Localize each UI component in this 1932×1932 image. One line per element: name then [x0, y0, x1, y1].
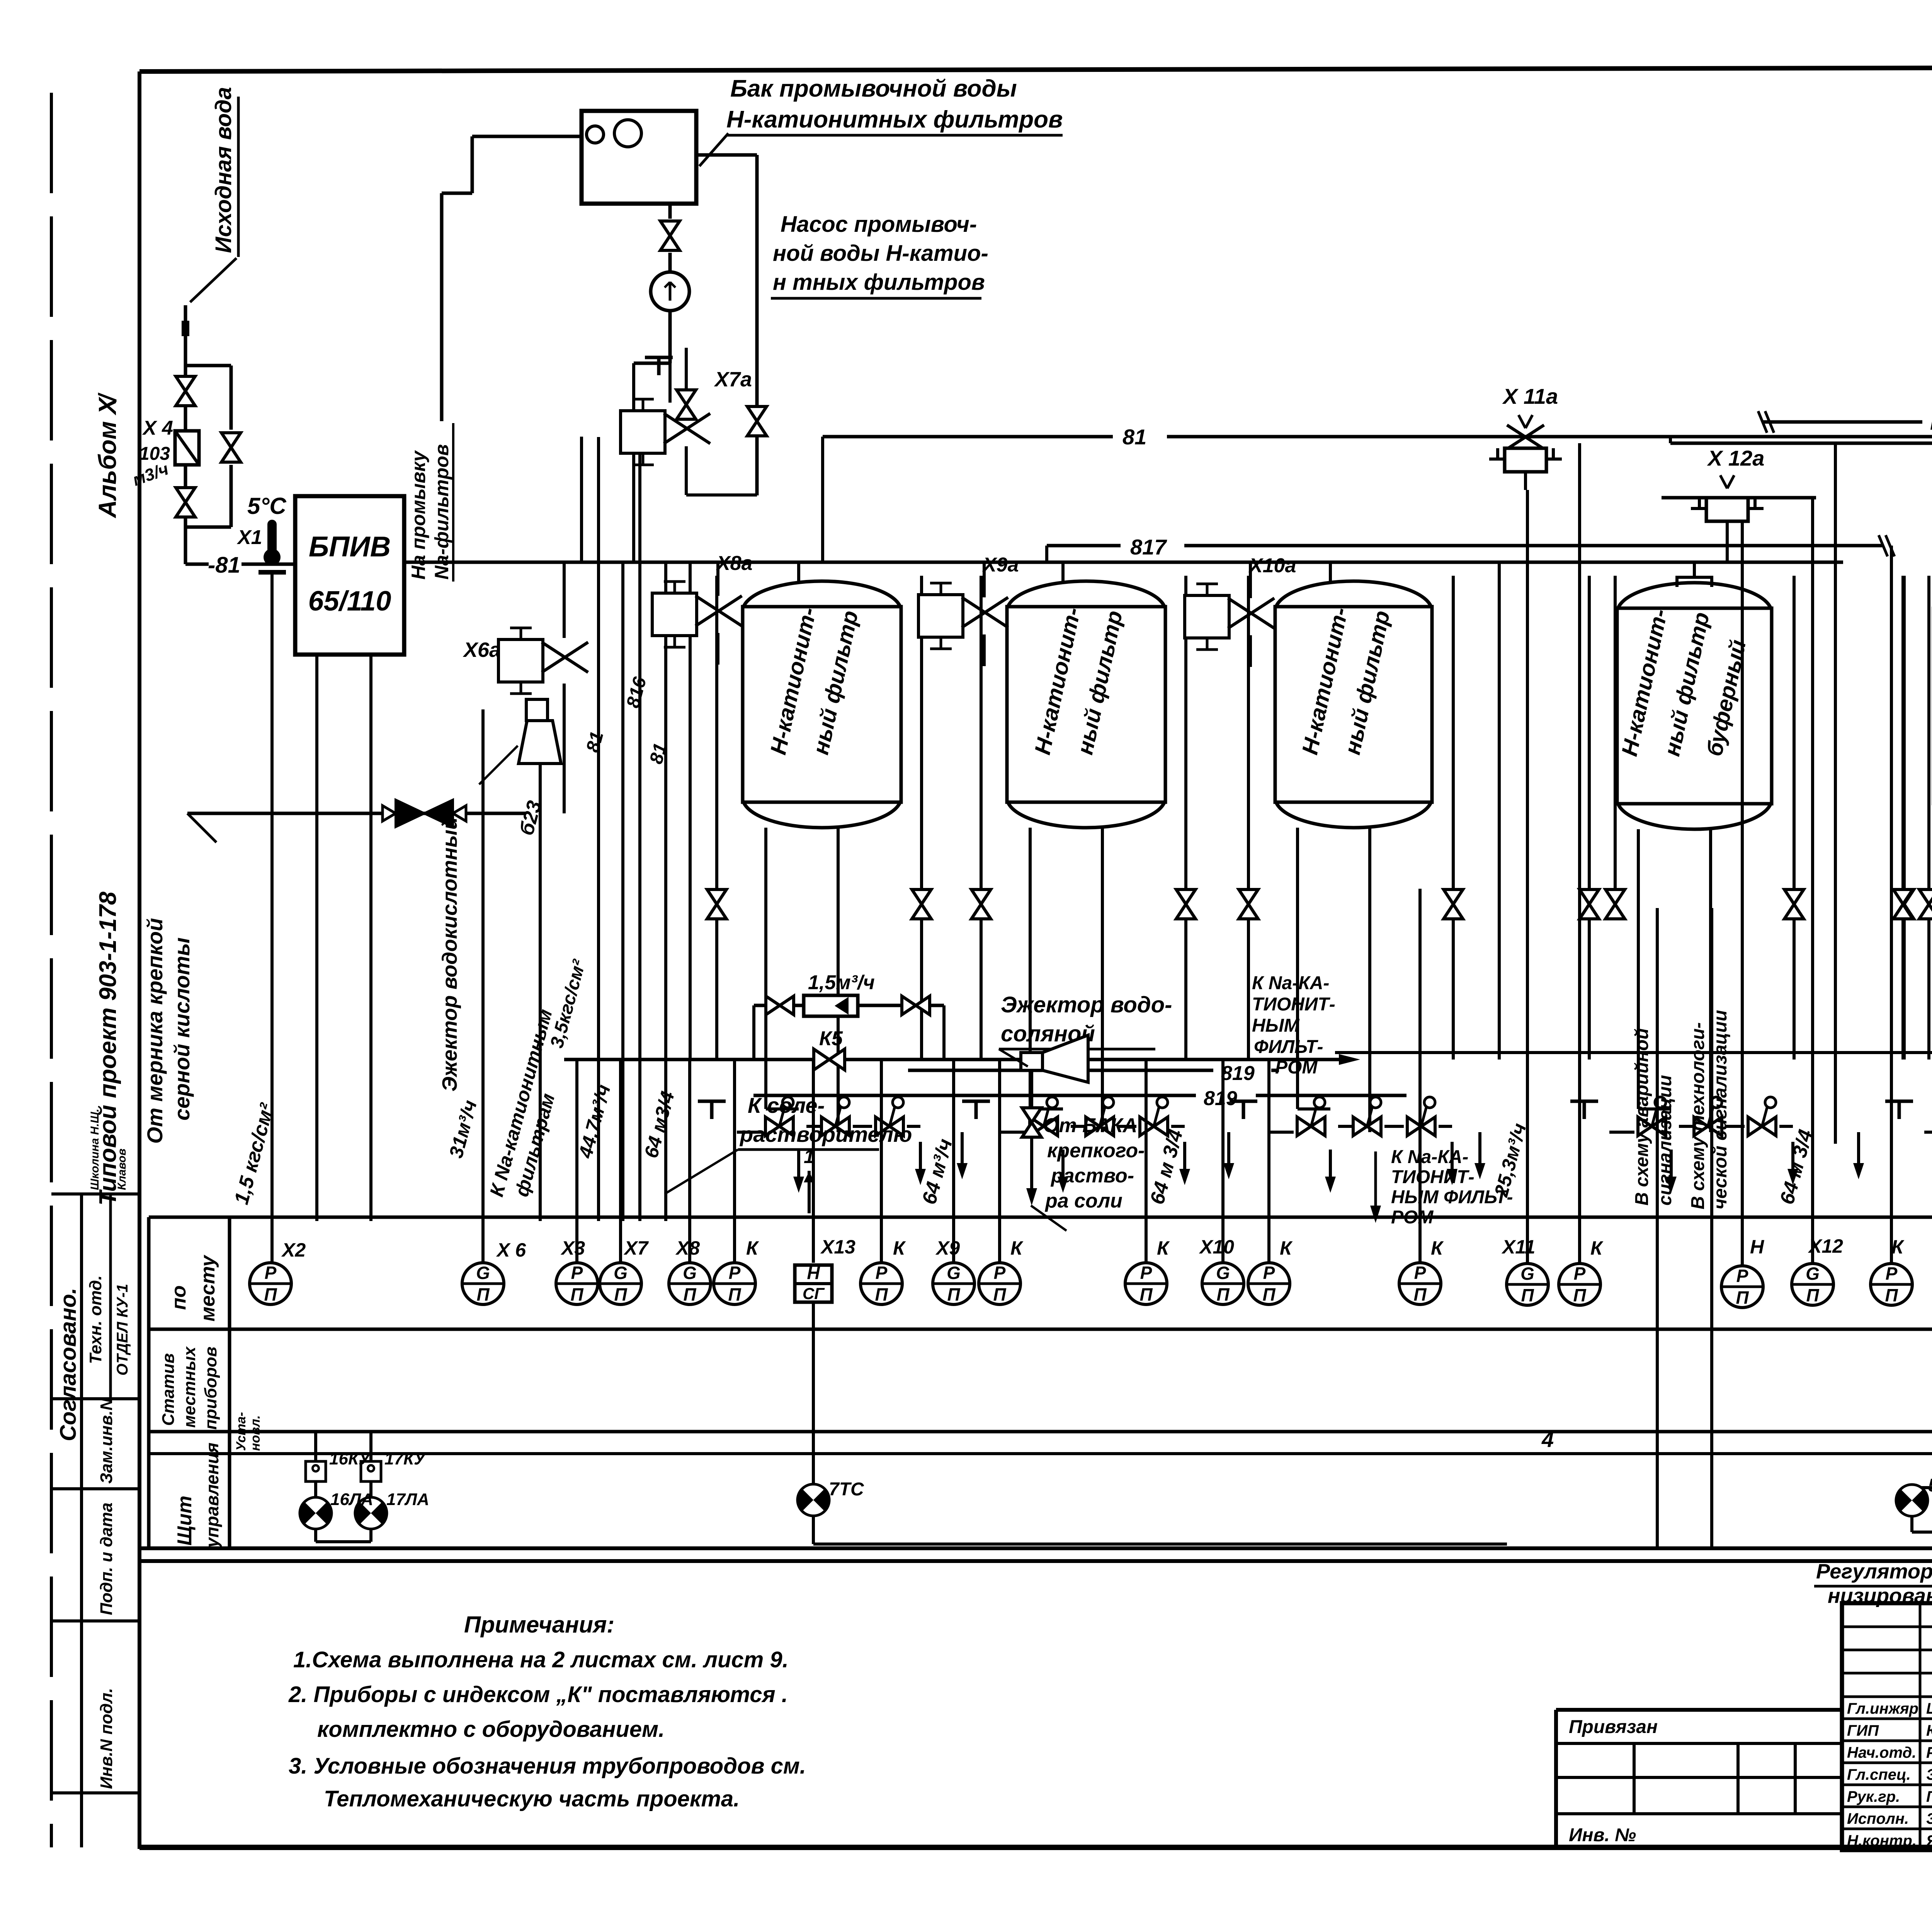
H-cation filter 3 bottom piping and valves: [1230, 828, 1458, 1193]
pipe from tank top left: [442, 136, 582, 421]
svg-text:НЫМ: НЫМ: [1252, 1015, 1300, 1036]
svg-text:Регулятор уровня в баке: Регулятор уровня в баке декарбо-: [1816, 1560, 1932, 1583]
svg-text:X9: X9: [935, 1237, 960, 1259]
svg-text:Примечания:: Примечания:: [464, 1612, 614, 1638]
svg-text:Нач.отд.: Нач.отд.: [1847, 1744, 1916, 1761]
main B18 header: [1670, 410, 1932, 454]
svg-text:П: П: [264, 1284, 277, 1304]
H-cation filter 2 vessel: [1007, 581, 1165, 828]
svg-text:новл.: новл.: [248, 1415, 263, 1451]
svg-text:Р: Р: [1574, 1264, 1586, 1284]
header line under buffer tanks: [1507, 1051, 1932, 1054]
svg-text:приборов: приборов: [201, 1347, 220, 1430]
svg-text:X3: X3: [560, 1237, 585, 1259]
svg-text:В схему аварийной: В схему аварийной: [1632, 1028, 1652, 1206]
H-cation buffer filter 4 side valves: [1580, 576, 1804, 1060]
svg-text:ческой сигнализации: ческой сигнализации: [1710, 1010, 1731, 1209]
svg-text:Р: Р: [571, 1263, 583, 1283]
svg-text:П: П: [875, 1284, 888, 1304]
block BPIV 65/110: [295, 496, 404, 655]
svg-text:X8а: X8а: [716, 552, 753, 575]
svg-text:по: по: [168, 1285, 190, 1310]
svg-text:местных: местных: [180, 1346, 199, 1428]
signal line to alarm circuit: [1632, 908, 1675, 1548]
drain stubs with arrows under manifold: [957, 1132, 1932, 1179]
svg-text:н тных фильтров: н тных фильтров: [773, 270, 985, 295]
buffer tank 4 extra valves: [1580, 576, 1932, 1060]
left sidebar column lines: [51, 93, 139, 1847]
svg-text:сигнализации: сигнализации: [1655, 1075, 1675, 1206]
svg-text:X11: X11: [1501, 1236, 1535, 1258]
svg-text:ФИЛЬТ-: ФИЛЬТ-: [1254, 1037, 1323, 1057]
svg-text:16ЛА: 16ЛА: [330, 1490, 373, 1509]
svg-text:комплектно с оборудованием.: комплектно с оборудованием.: [317, 1717, 665, 1742]
svg-text:П: П: [1262, 1284, 1276, 1304]
H-cation filter 3 vessel: [1275, 581, 1432, 828]
svg-text:Школина Н.Ш.: Школина Н.Ш.: [88, 1109, 101, 1190]
svg-text:G: G: [614, 1263, 628, 1283]
svg-text:ра соли: ра соли: [1044, 1190, 1122, 1212]
riser pipes B1 B16 group: [230, 437, 690, 1221]
svg-text:Ястребова: Ястребова: [1926, 1832, 1932, 1849]
instrument X3 P/P: [556, 1263, 598, 1304]
H-cation buffer filter 5 bottom piping and valves: [1885, 829, 1932, 1193]
valve X7a assembly: [621, 348, 767, 495]
svg-text:X 4: X 4: [142, 417, 173, 439]
riser from X12a to instrument X12: [1811, 498, 1814, 1263]
svg-text:ТИОНИТ-: ТИОНИТ-: [1252, 994, 1335, 1015]
pipe B1 to BPIV: [241, 563, 295, 566]
main B17 header: [1047, 535, 1895, 562]
wash water pump (Nasos promyvochnoy vody): [651, 212, 988, 311]
drain header B19 upper: [908, 1062, 1279, 1085]
svg-text:Уста-: Уста-: [234, 1412, 248, 1451]
valve on X4 branch lower: [176, 488, 195, 517]
tank top fittings circles: [587, 126, 604, 143]
svg-text:На промывку: На промывку: [408, 450, 429, 580]
svg-text:Н-катионитных фильтров: Н-катионитных фильтров: [726, 106, 1063, 133]
svg-text:Исполн.: Исполн.: [1847, 1810, 1909, 1827]
svg-text:В схему технологи-: В схему технологи-: [1688, 1022, 1708, 1209]
riser to Na-filters wash: [408, 423, 582, 582]
svg-text:Гл.спец.: Гл.спец.: [1847, 1766, 1911, 1783]
svg-text:X 12а: X 12а: [1707, 446, 1764, 470]
svg-text:Шкллер: Шкллер: [1926, 1700, 1932, 1717]
bypass valve right branch: [221, 433, 241, 462]
svg-text:П: П: [1139, 1284, 1153, 1304]
svg-text:Техн. отд.: Техн. отд.: [86, 1276, 105, 1364]
svg-text:3. Условные обозначения тру: 3. Условные обозначения трубопроводов см…: [289, 1753, 806, 1779]
svg-text:Статив: Статив: [159, 1353, 178, 1426]
svg-text:Бак промывочной воды: Бак промывочной воды: [730, 75, 1017, 102]
svg-text:П: П: [1216, 1284, 1230, 1304]
svg-text:17КУ: 17КУ: [384, 1449, 427, 1468]
svg-text:Альбом X̸: Альбом X̸: [94, 392, 121, 519]
misc risers middle right: [1499, 443, 1932, 1144]
instrument K P/P near X8: [714, 1263, 755, 1304]
svg-text:X1: X1: [236, 526, 262, 549]
control valve X6a: [463, 562, 588, 813]
svg-text:X 6: X 6: [496, 1239, 526, 1261]
svg-text:5ТС: 5ТС: [1928, 1475, 1932, 1496]
instrument K P/P tank3 left: [1125, 1263, 1167, 1304]
svg-text:ной воды Н-катио-: ной воды Н-катио-: [773, 241, 988, 266]
valve under wash tank: [660, 204, 680, 273]
svg-text:К: К: [1010, 1237, 1024, 1259]
panel lamps 5TC 6TC: [1896, 1475, 1932, 1532]
instrument K P/P near X11: [1559, 1264, 1600, 1305]
H-cation filter 1 side valves: [707, 576, 931, 1060]
acid feed line from strong acid measuring tank: [143, 800, 526, 1144]
svg-text:Зам.инв.N: Зам.инв.N: [97, 1398, 116, 1484]
svg-text:X2: X2: [281, 1239, 306, 1261]
label K Na-kationitnym filtram (to Na filters): [1370, 1147, 1513, 1228]
H-cation filter 2 side valves: [971, 576, 1196, 1060]
H-cation filter 1 bottom piping and valves: [698, 828, 926, 1193]
H-cation filter 2 bottom piping and valves: [962, 828, 1190, 1193]
svg-text:П: П: [947, 1284, 960, 1304]
H-cation buffer filter 5 vessel: [1932, 577, 1932, 829]
svg-text:Рук.гр.: Рук.гр.: [1847, 1788, 1900, 1805]
svg-text:G: G: [1216, 1263, 1230, 1283]
svg-text:65/110: 65/110: [308, 586, 391, 617]
instrument X9 G/P: [933, 1263, 975, 1304]
tank top connection stubs: [799, 562, 1932, 583]
svg-text:П: П: [476, 1284, 490, 1304]
svg-text:К: К: [1891, 1236, 1905, 1258]
svg-text:К5: К5: [819, 1027, 843, 1050]
svg-text:К: К: [893, 1237, 906, 1259]
svg-text:крепкого-: крепкого-: [1047, 1139, 1145, 1162]
control valve X11a on B1: [1489, 384, 1562, 1263]
svg-text:П: П: [1521, 1285, 1534, 1305]
svg-text:1,5м³/ч: 1,5м³/ч: [808, 971, 875, 994]
acid shutoff valve (filled): [396, 800, 453, 827]
svg-text:Тепломеханическую часть прое: Тепломеханическую часть проекта.: [324, 1786, 740, 1811]
svg-text:Гл.инжяр: Гл.инжяр: [1847, 1700, 1918, 1717]
svg-text:Р: Р: [1886, 1264, 1898, 1284]
svg-text:Р: Р: [1263, 1263, 1275, 1283]
svg-text:G: G: [947, 1263, 961, 1283]
svg-text:П: П: [728, 1284, 741, 1304]
svg-text:7ТС: 7ТС: [829, 1479, 864, 1500]
svg-text:17ЛА: 17ЛА: [386, 1490, 429, 1509]
svg-text:X8: X8: [675, 1237, 700, 1259]
svg-text:ОТДЕЛ КУ-1: ОТДЕЛ КУ-1: [114, 1284, 131, 1376]
svg-text:Ранерштейн: Ранерштейн: [1926, 1744, 1932, 1761]
svg-text:П: П: [1573, 1285, 1586, 1305]
svg-text:К: К: [1280, 1237, 1293, 1259]
svg-text:ГИП: ГИП: [1847, 1722, 1879, 1739]
svg-text:Горностаев: Горностаев: [1926, 1788, 1932, 1805]
svg-text:X7а: X7а: [714, 368, 752, 391]
svg-text:Клавов: Клавов: [116, 1148, 128, 1190]
svg-text:П: П: [614, 1284, 627, 1304]
svg-text:X 11а: X 11а: [1502, 384, 1558, 408]
title block attachment table: [1556, 1742, 1842, 1745]
svg-text:X9а: X9а: [982, 554, 1019, 576]
svg-text:месту: месту: [197, 1254, 219, 1321]
svg-text:П: П: [1806, 1285, 1819, 1305]
svg-text:1.Схема выполнена на 2 лист: 1.Схема выполнена на 2 листах см. лист 9…: [293, 1647, 789, 1672]
svg-text:819: 819: [1221, 1062, 1255, 1085]
svg-text:16КУ: 16КУ: [329, 1449, 371, 1468]
svg-text:G: G: [476, 1263, 490, 1283]
instrument X12 G/P: [1792, 1264, 1833, 1305]
H-cation buffer filter 4 bottom piping and valves: [1570, 829, 1798, 1193]
svg-text:81: 81: [1122, 425, 1146, 449]
regulator level label with leader: [1814, 1538, 1932, 1607]
svg-text:Привязан: Привязан: [1569, 1717, 1658, 1737]
panel lamp 7TC: [798, 1302, 1507, 1544]
svg-text:819: 819: [1204, 1087, 1237, 1110]
instrument K P/P tank4 left: [1399, 1263, 1441, 1304]
instrument H P/P: [1721, 1266, 1763, 1308]
pipe pump down and tee: [634, 311, 673, 562]
H-cation buffer filter 4 vessel: [1617, 577, 1772, 829]
svg-text:П: П: [570, 1284, 583, 1304]
svg-text:Н: Н: [807, 1263, 820, 1283]
svg-text:X13: X13: [820, 1236, 855, 1258]
svg-text:X10а: X10а: [1248, 554, 1296, 577]
H-cation filter 3 inlet control valve X10а: [1185, 554, 1296, 667]
valve on main under K5: [814, 1049, 845, 1070]
instrument band grid: [139, 1217, 1932, 1561]
svg-text:Р: Р: [876, 1263, 888, 1283]
svg-text:БПИВ: БПИВ: [309, 531, 391, 563]
svg-text:Юртаев: Юртаев: [1926, 1722, 1932, 1739]
svg-text:Инв.N подл.: Инв.N подл.: [97, 1688, 116, 1789]
drain header B19 lower: [753, 1087, 1406, 1110]
riser to instrument H: [1741, 521, 1744, 1265]
svg-text:ТИОНИТ-: ТИОНИТ-: [1391, 1167, 1475, 1187]
control valve X12a: [1662, 446, 1816, 1263]
svg-text:Na-фильтров: Na-фильтров: [431, 444, 452, 580]
label K Na-kationitnym filtram upper: [1252, 973, 1507, 1078]
svg-text:СГ: СГ: [803, 1284, 825, 1303]
instrument K P/P right of X13: [861, 1263, 902, 1304]
instrument X7 G/P: [600, 1263, 641, 1304]
svg-text:Согласовано.: Согласовано.: [56, 1288, 81, 1441]
svg-text:раство-: раство-: [1050, 1165, 1134, 1187]
water-salt ejector (Ezhektor vodo-solyanoy): [999, 992, 1507, 1107]
flow orifice K5 bypass loop: [754, 971, 944, 1070]
svg-text:X7: X7: [623, 1237, 649, 1259]
H-cation filter 2 inlet control valve X9а: [918, 554, 1019, 666]
svg-text:Р: Р: [994, 1263, 1006, 1283]
svg-text:Этинген: Этинген: [1926, 1766, 1932, 1783]
H-cation filter 3 side valves: [1239, 576, 1463, 1060]
svg-text:Щит: Щит: [173, 1496, 196, 1546]
svg-text:управления: управления: [202, 1442, 222, 1548]
svg-text:От БАКА: От БАКА: [1043, 1114, 1137, 1137]
svg-text:Закомаркова: Закомаркова: [1926, 1810, 1932, 1827]
svg-text:Инв. №: Инв. №: [1569, 1825, 1636, 1845]
svg-text:4: 4: [1541, 1427, 1554, 1452]
svg-text:К Na-КА-: К Na-КА-: [1391, 1147, 1468, 1167]
panel devices 16KU 17KU with lamps: [300, 1431, 429, 1542]
ejector vodokislotny (acid-water ejector): [438, 699, 561, 1221]
instrument X11 G/P: [1507, 1264, 1548, 1305]
H-cation buffer filter 5 side valves: [1895, 576, 1932, 1060]
svg-text:П: П: [993, 1284, 1006, 1304]
svg-text:К Na-КА-: К Na-КА-: [1252, 973, 1329, 993]
valve from strong salt tank: [1022, 1108, 1145, 1231]
pipes down from BPIV: [315, 655, 318, 1221]
svg-text:Насос промывоч-: Насос промывоч-: [781, 212, 977, 237]
svg-text:Р: Р: [265, 1263, 277, 1283]
instrument X2 P/P: [250, 1263, 291, 1304]
svg-text:X10: X10: [1199, 1236, 1234, 1258]
svg-text:растворителю: растворителю: [739, 1122, 912, 1146]
svg-text:П: П: [1885, 1285, 1898, 1305]
svg-text:К: К: [1590, 1237, 1604, 1259]
svg-text:-81: -81: [208, 553, 240, 578]
svg-text:К: К: [1431, 1237, 1444, 1259]
instrument K P/P near X10: [1248, 1263, 1290, 1304]
svg-text:G: G: [1520, 1264, 1534, 1284]
svg-text:Р: Р: [1140, 1263, 1152, 1283]
valve loop X4 (water meter): [130, 366, 241, 564]
riser from X11a to instrument X11: [1526, 490, 1529, 1263]
svg-text:G: G: [1806, 1264, 1820, 1284]
main B1 header: [823, 425, 1932, 562]
svg-text:серной кислоты: серной кислоты: [170, 937, 194, 1121]
valve right of K5: [902, 996, 930, 1015]
svg-text:От мерника крепкой: От мерника крепкой: [143, 918, 167, 1144]
svg-text:В 18: В 18: [1930, 410, 1932, 434]
svg-text:НЫМ ФИЛЬТ-: НЫМ ФИЛЬТ-: [1391, 1187, 1513, 1207]
svg-text:Эжектор водо-: Эжектор водо-: [1001, 992, 1172, 1017]
title block outer: [1556, 1603, 1932, 1850]
signal line to technological alarm circuit: [1688, 908, 1731, 1548]
svg-text:G: G: [683, 1263, 697, 1283]
instrument X6 G/P: [462, 1263, 504, 1304]
pipe B1 from BPIV to tanks manifold: [404, 561, 1843, 564]
instrument X8 G/P: [669, 1263, 711, 1304]
svg-text:К: К: [1157, 1237, 1170, 1259]
instrument X13 N/SG square: [795, 1265, 832, 1302]
orifice K5: [804, 995, 858, 1016]
svg-text:П: П: [683, 1284, 696, 1304]
wash water tank (Bak promyvochnoy vody): [582, 75, 1063, 204]
instrument K P/P near X9: [979, 1263, 1020, 1304]
svg-text:X6а: X6а: [463, 638, 501, 662]
H-cation filter 1 vessel: [743, 581, 901, 828]
svg-text:П: П: [1736, 1287, 1749, 1308]
svg-text:Н: Н: [1750, 1236, 1764, 1258]
pipe end markers B17: [1879, 535, 1888, 556]
svg-text:П: П: [1413, 1284, 1427, 1304]
raw water inlet node: [182, 87, 238, 366]
svg-text:К: К: [746, 1237, 759, 1259]
label K sole-rastvoritelyu (to salt dissolver): [665, 1093, 912, 1213]
svg-text:Н.контр.: Н.контр.: [1847, 1832, 1917, 1849]
svg-text:Подп. и дата: Подп. и дата: [97, 1503, 116, 1615]
header 64m3 line above instruments: [564, 1058, 1339, 1061]
svg-text:Исходная вода: Исходная вода: [211, 87, 236, 253]
svg-text:2. Приборы с индексом „К": 2. Приборы с индексом „К" поставляются .: [288, 1682, 788, 1707]
thermometer X1 with 5 C label: [236, 493, 287, 1263]
svg-text:Р: Р: [729, 1263, 741, 1283]
H-cation filter 1 inlet control valve X8а: [652, 552, 753, 665]
svg-text:X12: X12: [1808, 1235, 1843, 1257]
svg-text:5°C: 5°C: [247, 493, 287, 519]
instrument X10 G/P: [1202, 1263, 1244, 1304]
water meter X4 box: [175, 431, 199, 465]
instrument stems rising from row 1: [483, 443, 1932, 1272]
pipe from tank right side down: [696, 155, 757, 495]
svg-text:103: 103: [139, 444, 170, 464]
bypass valve right of pump: [747, 406, 767, 436]
valve on X4 branch upper: [176, 376, 195, 406]
svg-text:817: 817: [1130, 535, 1167, 559]
svg-text:Эжектор водокислотный: Эжектор водокислотный: [438, 817, 461, 1092]
secondary header under B18: [1670, 442, 1932, 445]
svg-text:Р: Р: [1736, 1266, 1748, 1286]
instrument K P/P near X12: [1871, 1264, 1912, 1305]
svg-text:Р: Р: [1414, 1263, 1426, 1283]
